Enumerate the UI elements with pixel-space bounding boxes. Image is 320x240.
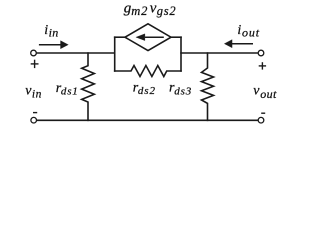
plus sign left [31,60,39,68]
svg-text:v: v [253,84,260,99]
svg-text:ds3: ds3 [174,85,192,97]
minus sign left [33,112,37,114]
terminal port top-right [258,50,264,56]
svg-text:i: i [44,23,48,38]
node left loop vertical wire [114,37,116,71]
wire top-right segment [181,52,258,54]
svg-text:v: v [150,0,157,16]
svg-text:i: i [237,23,241,38]
resistor rds3 [202,53,214,120]
svg-text:out: out [242,26,260,40]
terminal port top-left [31,50,37,56]
resistor rds2 [115,66,181,77]
arrow i_out (points left) [224,40,253,48]
svg-text:in: in [49,26,59,40]
dependent current source gm2*vgs2 diamond [125,24,171,51]
terminal port bottom-right [258,117,264,123]
terminal port bottom-left [31,117,37,123]
plus sign right [259,62,266,69]
wire stub current source right [171,36,181,38]
svg-text:ds2: ds2 [138,85,156,97]
svg-text:gs2: gs2 [157,4,177,18]
wire stub current source left [115,36,125,38]
wire top-left segment [37,52,115,54]
svg-text:out: out [260,87,277,101]
current source arrow (points left) [136,34,164,41]
node right loop vertical wire [180,37,182,71]
svg-text:in: in [32,89,42,101]
resistor rds1 [82,53,95,120]
svg-text:ds1: ds1 [61,86,79,98]
svg-text:m2: m2 [131,4,148,18]
arrow i_in (points right) [39,41,68,49]
wire bottom segment [37,119,258,121]
minus sign right [261,112,265,114]
